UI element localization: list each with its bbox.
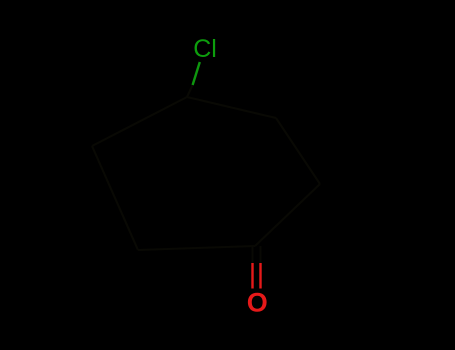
svg-text:Cl: Cl [193, 35, 217, 63]
svg-text:O: O [247, 288, 268, 318]
bond C1=O red half [253, 263, 261, 289]
bond ring edge V5-V6 [276, 118, 320, 184]
bond C=O dark half [253, 246, 261, 263]
bond ring edge V2-V3 [92, 146, 138, 250]
bond ring edge V3-V4 [138, 246, 255, 250]
bond C-Cl dark half [187, 85, 193, 97]
bond ring edge V4-V5 [255, 184, 320, 246]
carbon skeleton (very dark olive) [92, 85, 320, 263]
bond C-Cl green half [193, 62, 200, 85]
bond ring edge V6-V1 [187, 97, 276, 118]
bond ring edge V1-V2 [92, 97, 187, 146]
